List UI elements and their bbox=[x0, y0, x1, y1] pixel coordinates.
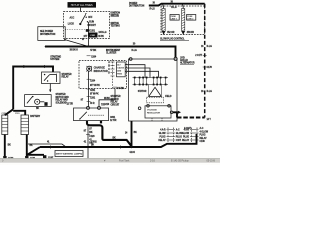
bus end arrow bbox=[44, 45, 46, 47]
svg-text:SYSTEM: SYSTEM bbox=[50, 59, 59, 61]
svg-text:RELAY AND: RELAY AND bbox=[56, 99, 69, 102]
connector tick C204 bbox=[87, 78, 91, 80]
main bus wire 30 R-LG bbox=[45, 47, 176, 58]
charge indicator lamp bbox=[86, 66, 92, 72]
svg-text:RELAY: RELAY bbox=[200, 137, 208, 140]
svg-text:BK: BK bbox=[8, 145, 12, 147]
svg-text:RUN: RUN bbox=[89, 21, 94, 23]
svg-text:BK: BK bbox=[89, 132, 93, 134]
fuse link 1 arrow bbox=[162, 32, 165, 35]
hot-at-all-times label box bbox=[68, 2, 97, 8]
connector black box C251 bbox=[86, 29, 90, 32]
svg-text:W-PK: W-PK bbox=[98, 36, 104, 38]
svg-text:BK: BK bbox=[113, 138, 117, 140]
battery feed wire bbox=[13, 67, 53, 110]
svg-text:BK: BK bbox=[30, 145, 34, 147]
alternator diode bridge bbox=[133, 77, 169, 86]
svg-text:C107: C107 bbox=[176, 140, 182, 142]
left connector box 1 bbox=[2, 115, 8, 135]
svg-text:LOCK: LOCK bbox=[68, 24, 75, 26]
wire power distribution feed bbox=[149, 4, 205, 6]
svg-text:W-BK: W-BK bbox=[104, 98, 110, 100]
svg-text:R-LG: R-LG bbox=[207, 46, 213, 48]
svg-text:40 R: 40 R bbox=[90, 102, 95, 105]
svg-text:12 T/R: 12 T/R bbox=[110, 120, 117, 122]
svg-text:GAUGE: GAUGE bbox=[117, 66, 124, 69]
starter relay box bbox=[42, 72, 61, 84]
svg-text:38 BK-O: 38 BK-O bbox=[70, 50, 79, 52]
ground arrow G102 bbox=[86, 159, 89, 162]
svg-text:ACC: ACC bbox=[70, 17, 75, 20]
svg-text:STARTER: STARTER bbox=[111, 95, 121, 98]
svg-text:14 Y: 14 Y bbox=[207, 118, 212, 121]
svg-text:INSTRUMENT: INSTRUMENT bbox=[106, 50, 121, 52]
svg-text:C801: C801 bbox=[110, 117, 116, 119]
wire into relay 2 from cluster bbox=[99, 89, 115, 107]
svg-text:A-C: A-C bbox=[200, 127, 204, 130]
svg-text:05-15-B: 05-15-B bbox=[207, 160, 216, 163]
svg-text:FEED: FEED bbox=[117, 73, 122, 75]
svg-text:977 W-PK: 977 W-PK bbox=[90, 85, 100, 87]
svg-text:R-LG: R-LG bbox=[150, 8, 156, 10]
ignition switch dashed box bbox=[64, 12, 110, 39]
svg-text:C128: C128 bbox=[89, 136, 95, 138]
wire direction arrows bbox=[44, 65, 47, 68]
cluster connector pin column bbox=[111, 59, 115, 89]
svg-text:BATTERY: BATTERY bbox=[30, 115, 40, 118]
connector tick C204 bbox=[87, 55, 91, 57]
relay output wires bbox=[87, 121, 132, 147]
stator delta winding bbox=[149, 87, 162, 96]
svg-text:RELAY: RELAY bbox=[111, 101, 119, 104]
footer bar bbox=[0, 158, 220, 162]
svg-text:E-141-05 Pickup: E-141-05 Pickup bbox=[171, 160, 189, 163]
svg-text:12 T/R: 12 T/R bbox=[67, 104, 74, 106]
svg-text:GLOW: GLOW bbox=[159, 133, 167, 135]
svg-text:(WITH WARNING LAMPS): (WITH WARNING LAMPS) bbox=[56, 153, 83, 156]
junction ignition wire / bus bbox=[88, 46, 90, 48]
wire from hot box to ignition switch bbox=[80, 8, 82, 12]
bottom left bus bbox=[27, 154, 44, 156]
svg-text:C802: C802 bbox=[92, 141, 98, 143]
svg-text:CLUSTER: CLUSTER bbox=[106, 53, 117, 55]
fuse link 1 hook wire bbox=[162, 4, 164, 9]
regulator output terminal bbox=[170, 111, 173, 114]
wire ignition switch down bbox=[88, 22, 90, 47]
svg-text:OFF: OFF bbox=[88, 17, 93, 19]
switch linkage dotted line bbox=[66, 29, 87, 31]
svg-text:R-LG: R-LG bbox=[171, 7, 177, 9]
svg-text:LINK Y: LINK Y bbox=[171, 19, 178, 21]
fuse link 2 label box bbox=[187, 15, 196, 21]
connector tick C201 bbox=[87, 96, 91, 98]
svg-text:C178: C178 bbox=[207, 67, 213, 69]
svg-text:HOT AT ALL TIMES: HOT AT ALL TIMES bbox=[71, 4, 93, 7]
svg-text:ALTERNATOR: ALTERNATOR bbox=[180, 62, 195, 65]
svg-text:97 W-PK: 97 W-PK bbox=[90, 94, 99, 96]
connector tick C178 bbox=[203, 66, 207, 68]
svg-text:TESTING: TESTING bbox=[111, 26, 121, 28]
svg-text:RELAY: RELAY bbox=[158, 139, 166, 142]
svg-text:4 W-BK: 4 W-BK bbox=[117, 87, 125, 90]
svg-text:GLOW: GLOW bbox=[182, 133, 190, 135]
svg-text:C251: C251 bbox=[90, 30, 96, 32]
alternator BAT terminal bbox=[174, 57, 177, 60]
label 40 R bbox=[87, 101, 91, 103]
battery junction wires bbox=[13, 111, 25, 115]
svg-text:2-16: 2-16 bbox=[150, 160, 155, 163]
svg-text:C251: C251 bbox=[90, 90, 96, 92]
diagonal to main bus bbox=[28, 147, 41, 155]
svg-text:LINK Z: LINK Z bbox=[187, 19, 194, 21]
glow plug relay box bbox=[74, 106, 109, 120]
fuse link dashed box bbox=[161, 6, 205, 35]
svg-text:MOTOR AND: MOTOR AND bbox=[56, 96, 70, 99]
svg-text:BK: BK bbox=[134, 132, 138, 134]
cluster gauge box bbox=[117, 62, 126, 77]
svg-text:2 C177: 2 C177 bbox=[195, 55, 203, 57]
bottom right connector 1 bbox=[167, 128, 176, 144]
svg-text:452 OR: 452 OR bbox=[167, 31, 175, 34]
svg-text:REGULATOR: REGULATOR bbox=[147, 112, 160, 115]
connector black box 2 bbox=[88, 33, 98, 38]
svg-text:RELAY: RELAY bbox=[62, 76, 70, 79]
bottom right connector 2 bbox=[190, 128, 199, 144]
svg-text:G104: G104 bbox=[130, 151, 136, 154]
svg-text:GLOW PLUG CONTROL: GLOW PLUG CONTROL bbox=[160, 39, 185, 41]
fuse link 2 hook wire bbox=[181, 4, 183, 9]
bottom label box bbox=[55, 151, 83, 157]
svg-text:STATOR: STATOR bbox=[138, 90, 147, 93]
alternator ground wire bbox=[131, 121, 133, 147]
voltage regulator box bbox=[138, 105, 171, 119]
fuse link 1 label box bbox=[170, 15, 179, 21]
svg-text:START: START bbox=[89, 24, 97, 27]
svg-text:C204: C204 bbox=[90, 79, 96, 82]
main ground bus bbox=[40, 134, 197, 147]
svg-text:C201: C201 bbox=[90, 97, 96, 99]
fuse link 2 element bbox=[182, 9, 185, 32]
svg-text:SOLENOID: SOLENOID bbox=[56, 102, 68, 104]
svg-text:BK: BK bbox=[36, 108, 40, 110]
fuse link 1 element bbox=[162, 9, 165, 32]
svg-text:4 GLOW: 4 GLOW bbox=[200, 130, 209, 133]
svg-text:FIELD: FIELD bbox=[165, 96, 172, 98]
thin wire 41 bbox=[28, 144, 66, 147]
svg-text:R-LG: R-LG bbox=[207, 91, 213, 93]
battery box bbox=[25, 95, 52, 107]
right feed wire down bbox=[204, 4, 206, 118]
wires cluster to alternator bbox=[125, 65, 145, 78]
svg-text:PLUG: PLUG bbox=[176, 136, 182, 138]
ground wire from connector 1 bbox=[4, 135, 6, 157]
svg-text:453 DB: 453 DB bbox=[187, 31, 195, 34]
connector tick C177 bbox=[203, 54, 207, 56]
svg-text:PLUG: PLUG bbox=[183, 136, 189, 138]
svg-text:STARTER: STARTER bbox=[56, 93, 66, 96]
wire below indicator bbox=[88, 71, 90, 107]
regulator ground stubs bbox=[151, 118, 153, 121]
wire starter relay down bbox=[49, 84, 51, 92]
wire from box to bus bbox=[64, 39, 89, 46]
see power distribution box bbox=[38, 27, 65, 41]
svg-text:16 R-LG: 16 R-LG bbox=[98, 32, 106, 34]
svg-text:C151: C151 bbox=[15, 113, 20, 115]
svg-text:DISTRIBUTION: DISTRIBUTION bbox=[129, 6, 145, 8]
glow plug feed wire down bbox=[87, 126, 89, 159]
ground wire from connector 2 bbox=[26, 135, 28, 157]
svg-text:STARTING: STARTING bbox=[50, 55, 61, 58]
svg-text:PLUG: PLUG bbox=[200, 135, 206, 137]
svg-text:DISTRIBUTION: DISTRIBUTION bbox=[40, 34, 56, 36]
left connector box 2 bbox=[21, 115, 29, 135]
svg-text:57 BK: 57 BK bbox=[90, 50, 96, 52]
svg-text:Fuel Tank: Fuel Tank bbox=[119, 160, 130, 163]
svg-text:C251: C251 bbox=[90, 35, 96, 37]
svg-text:4 A-R: 4 A-R bbox=[160, 128, 166, 131]
brush dashed box bbox=[147, 97, 164, 103]
svg-text:R-LG: R-LG bbox=[132, 50, 138, 52]
svg-text:A-C: A-C bbox=[176, 128, 180, 131]
svg-text:C210: C210 bbox=[104, 104, 110, 106]
svg-text:STARTER: STARTER bbox=[62, 73, 72, 76]
instrument cluster dashed box bbox=[79, 61, 127, 89]
svg-text:BK: BK bbox=[91, 144, 95, 146]
svg-text:C204: C204 bbox=[91, 56, 97, 59]
svg-text:RELAY: RELAY bbox=[182, 139, 190, 142]
svg-text:SEE POWER: SEE POWER bbox=[40, 31, 53, 33]
svg-text:CIRCUIT: CIRCUIT bbox=[111, 104, 120, 106]
connector tick C251 bbox=[87, 88, 91, 90]
ignition switch contacts bbox=[79, 13, 89, 26]
svg-text:C108: C108 bbox=[200, 141, 206, 143]
svg-text:AND: AND bbox=[117, 69, 122, 72]
svg-text:INDICATOR: INDICATOR bbox=[94, 69, 108, 73]
junction G104 bbox=[130, 146, 132, 148]
svg-text:VOLTAGE: VOLTAGE bbox=[147, 109, 157, 112]
alternator box bbox=[129, 59, 178, 121]
svg-text:4 A-R: 4 A-R bbox=[184, 128, 190, 131]
svg-text:MOTOR: MOTOR bbox=[111, 99, 119, 101]
fuse link 2 arrow bbox=[182, 32, 185, 35]
svg-text:PLUG: PLUG bbox=[160, 136, 166, 138]
